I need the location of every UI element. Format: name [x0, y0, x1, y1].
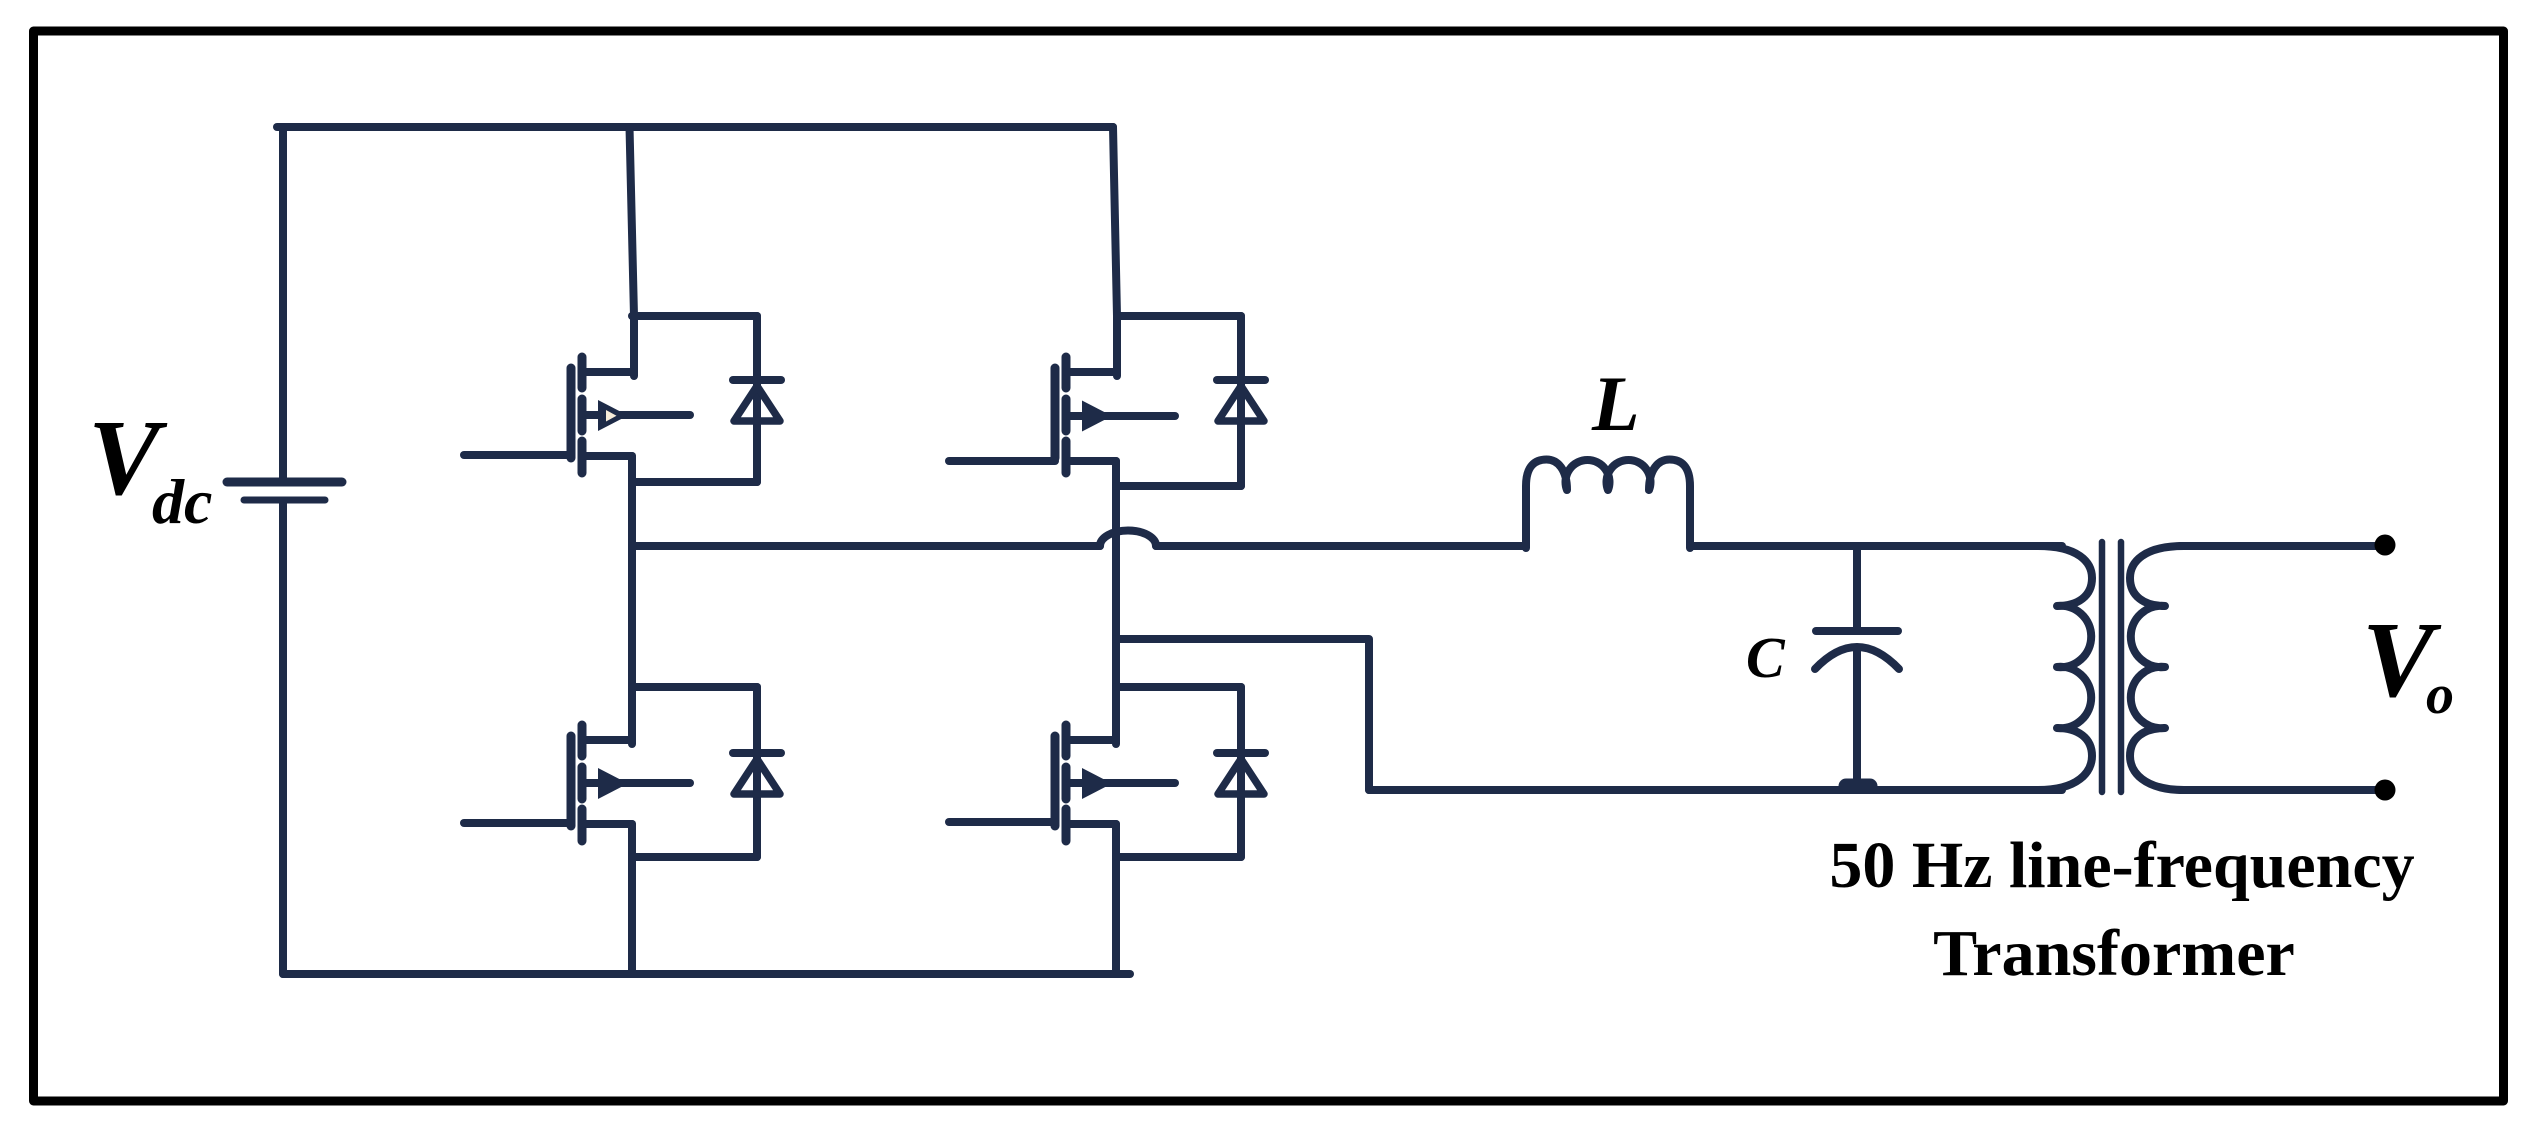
wire: S2 source to bottom rail: [628, 824, 636, 974]
wire: output mid rail to inductor: [1156, 542, 1526, 550]
wire: bottom DC rail: [283, 970, 1130, 978]
wire: output mid rail left of hop: [632, 542, 1100, 550]
junction blob at capacitor bottom: [1846, 779, 1870, 794]
node: output terminal top: [2375, 535, 2396, 556]
svg-text:Transformer: Transformer: [1933, 917, 2295, 990]
wire: drain drop to S1: [630, 127, 635, 376]
wire: secondary top lead: [2180, 542, 2385, 550]
transistor S1 (top-left MOSFET): [464, 357, 690, 473]
svg-text:o: o: [2426, 664, 2454, 726]
wire: S4 diode bottom link: [1116, 853, 1241, 861]
svg-text:C: C: [1746, 625, 1786, 690]
svg-text:50 Hz line-frequency: 50 Hz line-frequency: [1829, 829, 2414, 902]
battery Vdc negative plate: [244, 497, 325, 504]
capacitor C curved plate: [1815, 647, 1899, 669]
wire: S1 source / S2 drain leg: [628, 456, 636, 744]
diode D2 (body diode of S2): [733, 687, 781, 857]
transistor S2 (bottom-left MOSFET): [464, 725, 690, 841]
transformer secondary winding: [2130, 546, 2184, 790]
wire: left DC rail upper: [279, 127, 287, 478]
svg-text:L: L: [1591, 360, 1640, 447]
wire: crossover hop over S3 leg: [1100, 531, 1156, 547]
wire: S1 diode bottom link: [632, 478, 757, 486]
wire: top DC rail: [277, 123, 1113, 131]
capacitor C top lead: [1853, 546, 1861, 630]
diode D3 (body diode of S3): [1217, 316, 1265, 486]
wire: S2 diode bottom link: [632, 853, 757, 861]
svg-text:dc: dc: [152, 466, 212, 537]
wire: secondary bottom lead: [2180, 786, 2385, 794]
wire: S3 diode bottom link: [1116, 482, 1241, 490]
wire: lower output link from S3/S4 node: [1116, 639, 1369, 790]
diode D4 (body diode of S4): [1217, 687, 1265, 857]
wire: S1 drain-diode top link: [632, 312, 757, 320]
wire: drain drop to S3: [1113, 127, 1117, 376]
transistor S4 (bottom-right MOSFET): [949, 725, 1175, 841]
transistor S3 (top-right MOSFET): [949, 357, 1175, 473]
transformer primary winding: [2038, 546, 2092, 790]
diode D1 (body diode of S1): [733, 316, 781, 482]
transformer core: [2102, 542, 2121, 792]
battery Vdc positive plate: [227, 478, 342, 487]
wire: S3 drain-diode top link: [1117, 312, 1241, 320]
wire: S4 source to bottom rail: [1112, 824, 1120, 974]
inductor L: [1526, 460, 1690, 549]
node: output terminal bottom: [2375, 780, 2396, 801]
wire: S2 drain-diode top link: [632, 683, 757, 691]
wire: inductor to transformer top: [1690, 542, 2062, 550]
wire: S4 drain-diode top link: [1116, 683, 1241, 691]
wire: S3 source / S4 drain leg: [1112, 461, 1120, 744]
capacitor C top plate: [1816, 627, 1898, 635]
wire: left DC rail lower: [279, 503, 287, 974]
capacitor C bottom lead: [1853, 648, 1861, 790]
wire: bottom output rail: [1369, 786, 2062, 794]
